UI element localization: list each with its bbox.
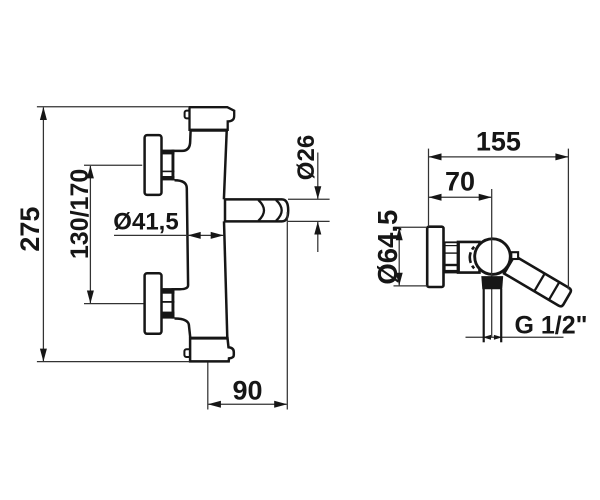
svg-text:Ø26: Ø26 <box>293 135 320 180</box>
svg-text:Ø64,5: Ø64,5 <box>372 210 403 285</box>
svg-text:70: 70 <box>445 167 475 197</box>
svg-text:130/170: 130/170 <box>66 169 94 259</box>
svg-text:Ø41,5: Ø41,5 <box>113 209 178 236</box>
svg-text:G 1/2": G 1/2" <box>515 311 588 339</box>
svg-text:275: 275 <box>15 207 45 252</box>
svg-text:155: 155 <box>476 126 521 156</box>
svg-text:90: 90 <box>232 375 262 405</box>
